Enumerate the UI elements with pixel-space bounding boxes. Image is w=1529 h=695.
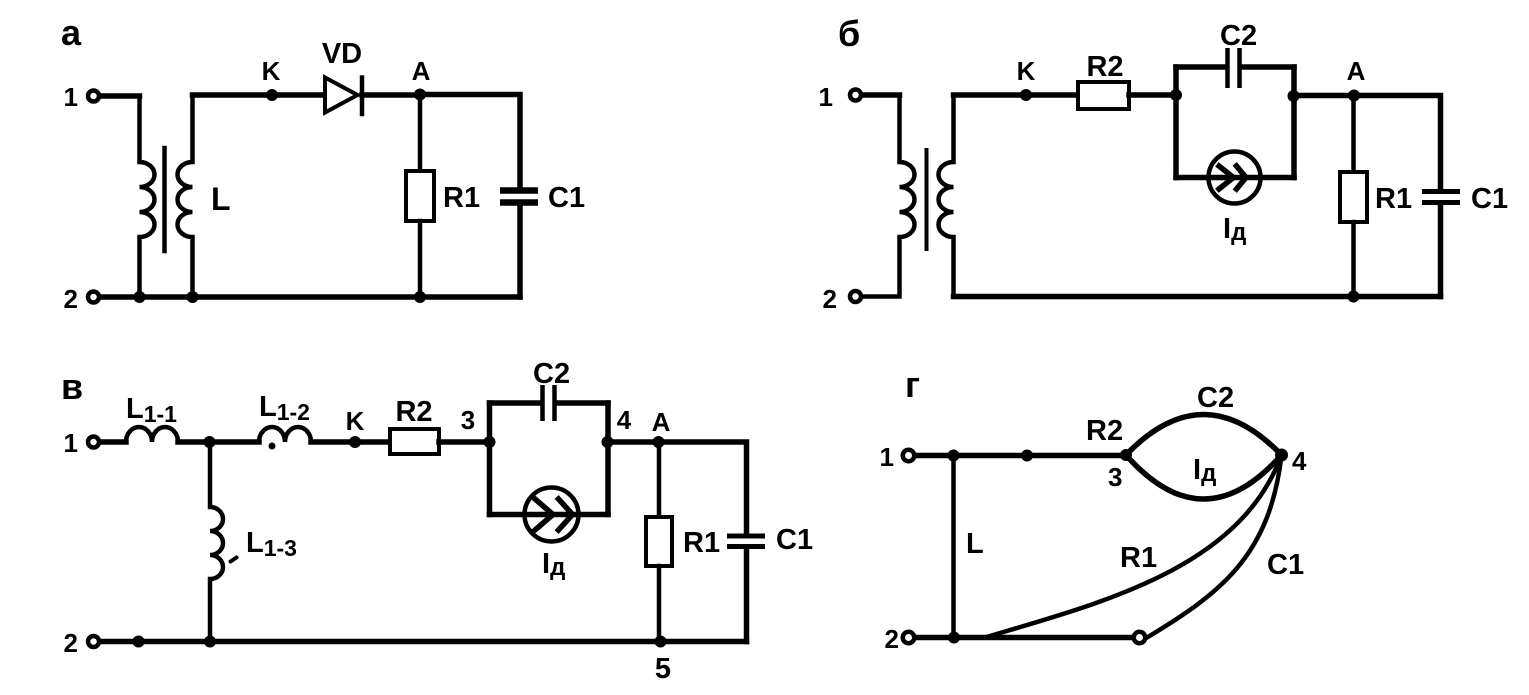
- polarity mark of L1-3: [231, 558, 237, 562]
- wire top branch left: [490, 400, 540, 406]
- inductor L1-1: [126, 427, 178, 442]
- junction dot R1 bottom: [414, 291, 426, 303]
- svg-text:K: K: [1017, 56, 1036, 86]
- junction dot tap: [204, 436, 216, 448]
- svg-text:VD: VD: [322, 38, 362, 70]
- svg-text:R2: R2: [1086, 415, 1123, 447]
- wire L1-1 to junction: [178, 439, 259, 445]
- wire diode cathode to node A: [362, 92, 420, 98]
- parallel group left vertical: [1173, 67, 1179, 178]
- parallel group right vertical: [1291, 67, 1297, 178]
- edge Iд lower arc: [1126, 455, 1282, 499]
- current source arrow chevron 1: [535, 499, 553, 530]
- svg-text:C2: C2: [533, 358, 570, 390]
- wire L1-2 to node K: [311, 439, 390, 445]
- junction dot mid: [1021, 450, 1033, 462]
- svg-text:A: A: [652, 407, 671, 437]
- transformer core: [925, 148, 929, 251]
- open node circle: [1134, 632, 1146, 644]
- capacitor C1 plates: [727, 534, 765, 539]
- svg-text:A: A: [412, 56, 431, 86]
- svg-text:A: A: [1347, 56, 1366, 86]
- current source arrow chevron 2: [559, 499, 573, 530]
- wire top branch left: [1176, 64, 1225, 70]
- svg-text:C1: C1: [776, 524, 813, 556]
- node 3: [484, 436, 496, 448]
- node K: [349, 436, 361, 448]
- wire terminal 1 to node 3: [916, 453, 1126, 459]
- current source Iд circle: [1209, 152, 1261, 204]
- terminal 2: [88, 636, 99, 647]
- edge L vertical: [951, 456, 956, 638]
- terminal 1: [88, 91, 99, 102]
- current source Iд circle: [525, 488, 579, 542]
- capacitor C1 plates: [1422, 189, 1460, 194]
- svg-text:C1: C1: [548, 182, 585, 214]
- wire top branch right: [557, 400, 608, 406]
- wire K to R2: [1026, 92, 1078, 98]
- wire node A down to R1: [657, 442, 662, 517]
- svg-text:1: 1: [880, 442, 894, 472]
- wire R1 bottom to node 5: [657, 566, 662, 642]
- svg-text:2: 2: [64, 284, 78, 314]
- inductor L1-3: [210, 442, 223, 642]
- wire secondary top to node K: [954, 92, 1027, 98]
- node 4: [602, 436, 614, 448]
- wire C1 bottom to bottom rail: [744, 549, 750, 642]
- terminal 2: [850, 291, 861, 302]
- terminal 1: [88, 437, 99, 448]
- svg-text:C2: C2: [1197, 382, 1234, 414]
- transformer primary winding: [863, 95, 915, 297]
- capacitor C1 plates: [500, 187, 538, 194]
- node A: [1348, 90, 1360, 102]
- wire top branch right: [1242, 64, 1294, 70]
- bottom rail wire: [101, 639, 747, 645]
- bottom branch wire through current source: [490, 512, 609, 518]
- wire terminal 1 to primary winding: [863, 92, 900, 98]
- terminal 1: [850, 90, 861, 101]
- junction dot L bottom: [948, 632, 960, 644]
- svg-text:3: 3: [1108, 462, 1122, 492]
- svg-text:1: 1: [64, 82, 78, 112]
- wire group right node to node A: [1294, 93, 1354, 99]
- junction dot R1 bottom: [1348, 291, 1360, 303]
- inductor L1-2: [259, 427, 311, 442]
- junction dot L1-3 bottom: [204, 636, 216, 648]
- resistor R1: [406, 171, 434, 221]
- svg-text:C1: C1: [1267, 549, 1304, 581]
- wire C1 bottom to bottom rail: [517, 206, 523, 297]
- resistor R2: [1078, 82, 1129, 109]
- svg-text:2: 2: [823, 284, 837, 314]
- edge C2 upper arc: [1126, 415, 1282, 456]
- edge C1 curve: [1147, 455, 1282, 638]
- edge R1 curve: [985, 455, 1282, 638]
- junction dot primary bottom: [134, 291, 146, 303]
- transformer secondary winding: [939, 95, 954, 297]
- svg-text:а: а: [61, 12, 82, 53]
- svg-text:R2: R2: [395, 396, 432, 428]
- current source arrow chevron 1: [1219, 166, 1234, 189]
- svg-text:3: 3: [461, 405, 475, 435]
- bottom branch wire through current source: [1176, 175, 1294, 181]
- resistor R1: [646, 517, 672, 566]
- svg-text:2: 2: [885, 624, 899, 654]
- capacitor C2 plates: [1225, 48, 1230, 88]
- svg-text:K: K: [346, 406, 365, 436]
- svg-text:R1: R1: [443, 182, 480, 214]
- wire node A to C1 top: [420, 95, 520, 188]
- svg-text:4: 4: [1292, 446, 1307, 476]
- wire C1 bottom to bottom rail: [1438, 205, 1444, 297]
- current source arrow chevron 2: [1237, 166, 1247, 189]
- svg-text:2: 2: [64, 628, 78, 658]
- svg-text:1: 1: [64, 428, 78, 458]
- svg-text:K: K: [262, 56, 281, 86]
- svg-text:R1: R1: [683, 527, 720, 559]
- resistor R1: [1340, 172, 1367, 222]
- terminal 2: [88, 292, 99, 303]
- wire node A down to R1: [418, 95, 423, 172]
- wire R2 to parallel group left node: [1129, 92, 1176, 98]
- svg-text:L: L: [966, 528, 984, 560]
- node at group left: [1170, 89, 1182, 101]
- svg-text:L: L: [211, 181, 231, 217]
- parallel group right vertical: [605, 403, 611, 515]
- parallel group left vertical: [487, 403, 493, 515]
- junction dot on bottom rail: [133, 636, 145, 648]
- node 3: [1120, 449, 1132, 461]
- diode VD: [325, 78, 358, 113]
- junction dot secondary bottom: [187, 291, 199, 303]
- svg-text:г: г: [905, 364, 920, 405]
- bottom rail wire: [101, 294, 520, 300]
- svg-text:б: б: [838, 13, 860, 54]
- node A: [414, 89, 426, 101]
- svg-text:5: 5: [655, 653, 671, 685]
- svg-text:C2: C2: [1220, 20, 1257, 52]
- resistor R2: [390, 429, 439, 454]
- diode VD cathode bar: [360, 78, 365, 115]
- wire secondary top to node K: [193, 92, 273, 98]
- transformer secondary winding: [178, 95, 193, 297]
- terminal 2: [903, 632, 915, 644]
- wire node K to diode anode: [272, 92, 325, 98]
- polarity dot of L1-2: [269, 443, 276, 450]
- svg-text:в: в: [61, 366, 83, 407]
- wire R2 to node 3: [439, 439, 490, 445]
- transformer core: [162, 148, 167, 251]
- node K: [1020, 89, 1032, 101]
- junction dot L top: [948, 450, 960, 462]
- svg-text:R1: R1: [1120, 542, 1157, 574]
- svg-text:R2: R2: [1086, 51, 1123, 83]
- svg-text:1: 1: [819, 82, 833, 112]
- node 4: [1275, 449, 1288, 462]
- transformer primary winding L: [140, 96, 155, 297]
- node A: [653, 436, 665, 448]
- wire node A down to R1: [1351, 96, 1356, 173]
- svg-text:C1: C1: [1471, 183, 1508, 215]
- terminal 1: [903, 450, 915, 462]
- wire R1 bottom to bottom rail: [418, 221, 423, 297]
- wire node 4 to node A: [608, 439, 659, 445]
- bottom rail wire: [954, 294, 1441, 300]
- svg-text:R1: R1: [1375, 183, 1412, 215]
- wire R1 bottom to bottom rail: [1351, 222, 1356, 297]
- node at group right: [1288, 90, 1300, 102]
- wire node A to C1 top: [1354, 96, 1441, 190]
- capacitor C2 plates: [540, 385, 545, 421]
- wire node A to C1 top: [659, 442, 747, 534]
- wire terminal 1 to L1-1: [101, 439, 126, 445]
- svg-text:4: 4: [617, 405, 632, 435]
- bottom wire terminal 2 to open node: [916, 635, 1132, 641]
- wire terminal 1 to primary winding top: [101, 93, 140, 99]
- node 5: [655, 636, 667, 648]
- node K: [266, 89, 278, 101]
